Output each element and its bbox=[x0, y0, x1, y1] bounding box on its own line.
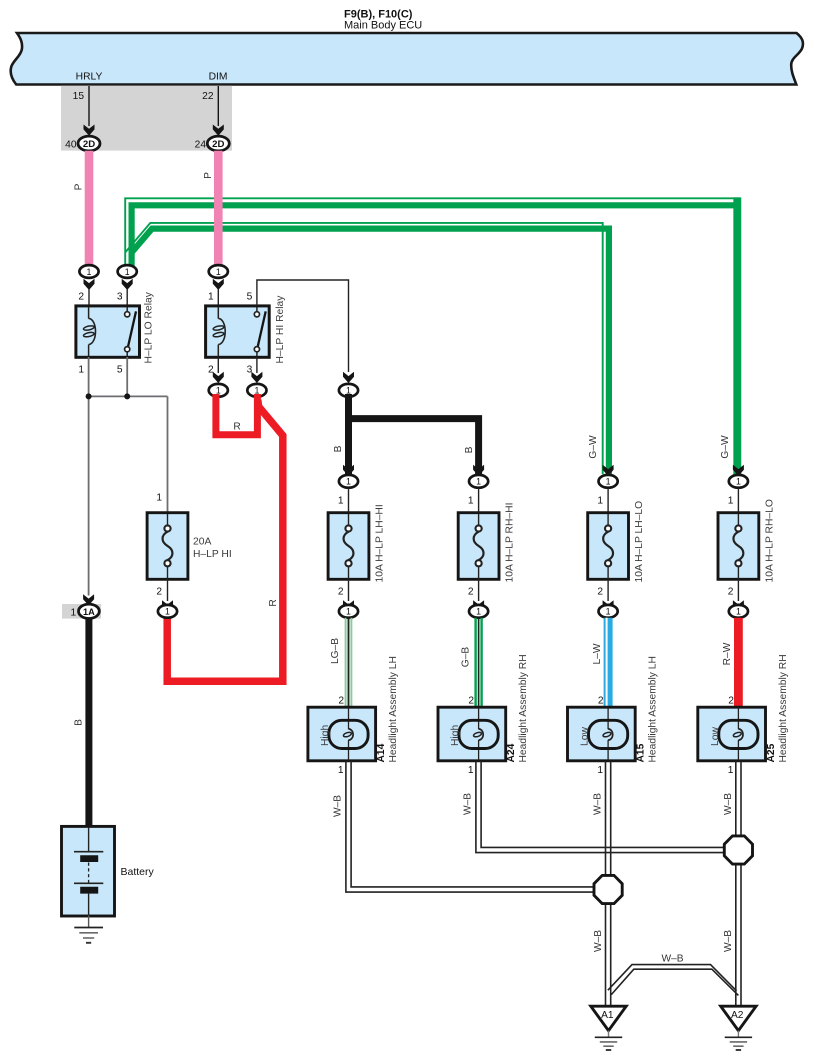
svg-text:1: 1 bbox=[208, 292, 214, 303]
HI relay pin 2 stub bbox=[217, 357, 219, 373]
battery bbox=[62, 826, 115, 916]
ground A2 bbox=[721, 1006, 756, 1030]
wire W-B link between A1 and A2 legs bbox=[608, 965, 737, 991]
connector 1 above fuse 10A H&#8211;LP LH&#8211;LO bbox=[603, 465, 614, 476]
svg-text:Headlight Assembly LH: Headlight Assembly LH bbox=[388, 656, 399, 762]
connector 2D pin 40 bbox=[84, 125, 95, 136]
wire to 1A connector bbox=[88, 396, 90, 595]
svg-text:R: R bbox=[268, 599, 279, 606]
fuse 10A H&#8211;LP RH&#8211;HI box bbox=[458, 513, 499, 580]
battery ground bbox=[88, 916, 90, 928]
junction octagon left bbox=[594, 875, 622, 903]
svg-text:1A: 1A bbox=[83, 607, 95, 617]
svg-text:W–B: W–B bbox=[333, 795, 344, 817]
svg-text:2: 2 bbox=[78, 292, 84, 303]
svg-text:2: 2 bbox=[468, 696, 474, 707]
svg-text:A24: A24 bbox=[506, 743, 517, 762]
wire G-W upper run to RH-LO fuse bbox=[132, 205, 738, 474]
connector 1 above LO relay pin 2 bbox=[79, 265, 98, 278]
wire W-B from A14 to junction bbox=[346, 761, 597, 892]
svg-text:1: 1 bbox=[597, 496, 603, 507]
svg-text:A1: A1 bbox=[601, 1010, 614, 1021]
relay contact bbox=[126, 307, 128, 312]
svg-text:DIM: DIM bbox=[209, 72, 228, 83]
svg-text:B: B bbox=[333, 445, 344, 452]
fuse 10A H&#8211;LP LH&#8211;HI box bbox=[328, 513, 369, 580]
svg-text:10A H–LP RH–HI: 10A H–LP RH–HI bbox=[505, 503, 516, 583]
svg-text:10A H–LP RH–LO: 10A H–LP RH–LO bbox=[764, 499, 775, 582]
svg-text:LG–B: LG–B bbox=[330, 638, 341, 664]
wire HRLY pin15 bbox=[88, 86, 90, 126]
svg-text:P: P bbox=[74, 183, 85, 190]
svg-text:2: 2 bbox=[597, 587, 603, 598]
svg-text:2: 2 bbox=[338, 587, 344, 598]
svg-text:2: 2 bbox=[156, 587, 162, 598]
wire LG-B to A14 bbox=[345, 618, 347, 708]
svg-text:1: 1 bbox=[78, 365, 84, 376]
wire W-B from A25 to ground A2 bbox=[735, 761, 737, 1007]
svg-text:Headlight Assembly RH: Headlight Assembly RH bbox=[778, 654, 789, 762]
svg-text:Main Body ECU: Main Body ECU bbox=[344, 20, 422, 32]
relay box H&#8211;LP LO Relay bbox=[76, 306, 140, 357]
svg-text:A2: A2 bbox=[731, 1010, 744, 1021]
node Main Body ECU band bbox=[11, 33, 803, 85]
connector 1 above fuse 10A H&#8211;LP LH&#8211;HI bbox=[343, 465, 354, 476]
svg-text:B: B bbox=[74, 719, 85, 726]
svg-text:1: 1 bbox=[338, 765, 344, 776]
svg-text:5: 5 bbox=[117, 365, 123, 376]
wire P from pin 24 to HI relay bbox=[214, 151, 223, 265]
svg-text:Low: Low bbox=[710, 727, 721, 746]
svg-text:P: P bbox=[203, 172, 214, 179]
connector 2D block bbox=[61, 86, 232, 151]
svg-text:G–W: G–W bbox=[588, 435, 599, 459]
svg-text:2: 2 bbox=[728, 696, 734, 707]
HI relay pin 3 stub bbox=[256, 357, 258, 373]
wire R U-link relay pins 2-3 bbox=[216, 394, 258, 435]
connector 1 on B wire bbox=[343, 372, 354, 383]
svg-text:G–W: G–W bbox=[720, 435, 731, 459]
connector 1 above fuse 10A H&#8211;LP RH&#8211;LO bbox=[733, 465, 744, 476]
relay contact bbox=[256, 307, 258, 312]
svg-text:W–B: W–B bbox=[593, 930, 604, 952]
svg-text:3: 3 bbox=[117, 292, 123, 303]
svg-text:H–LP HI Relay: H–LP HI Relay bbox=[275, 295, 286, 364]
svg-text:1: 1 bbox=[597, 765, 603, 776]
wire B to battery bbox=[85, 618, 92, 827]
svg-text:High: High bbox=[450, 725, 461, 746]
connector 1 above HI relay pin 1 bbox=[209, 265, 228, 278]
svg-text:10A H–LP LH–LO: 10A H–LP LH–LO bbox=[634, 501, 645, 583]
wire L-W to A15 bbox=[604, 618, 613, 708]
headlight bulb A24 High bbox=[438, 707, 506, 761]
svg-text:1: 1 bbox=[468, 765, 474, 776]
connector 1 above LO relay pin 3 bbox=[118, 265, 137, 278]
svg-text:1: 1 bbox=[338, 496, 344, 507]
svg-text:2: 2 bbox=[468, 587, 474, 598]
svg-text:W–B: W–B bbox=[593, 793, 604, 815]
svg-text:H–LP HI: H–LP HI bbox=[193, 549, 232, 560]
svg-text:R–W: R–W bbox=[722, 642, 733, 665]
wire HI relay pin 5 to connector bbox=[257, 280, 349, 372]
svg-text:High: High bbox=[320, 725, 331, 746]
svg-text:H–LP LO Relay: H–LP LO Relay bbox=[144, 291, 155, 363]
svg-text:2D: 2D bbox=[83, 139, 95, 150]
svg-text:10A H–LP LH–HI: 10A H–LP LH–HI bbox=[375, 504, 386, 582]
svg-text:1: 1 bbox=[728, 496, 734, 507]
wire W-B from A24 to junction bbox=[476, 761, 728, 853]
fuse 10A H&#8211;LP RH&#8211;LO box bbox=[718, 513, 759, 580]
svg-text:2: 2 bbox=[728, 587, 734, 598]
wire W-B from A15 to ground A1 bbox=[605, 761, 607, 1007]
svg-text:1: 1 bbox=[468, 496, 474, 507]
svg-text:1: 1 bbox=[156, 493, 162, 504]
svg-text:24: 24 bbox=[195, 140, 207, 151]
svg-text:B: B bbox=[464, 446, 475, 453]
svg-text:A15: A15 bbox=[636, 743, 647, 762]
svg-text:22: 22 bbox=[202, 91, 214, 102]
svg-text:2D: 2D bbox=[212, 139, 224, 150]
wire G-B to A24 bbox=[474, 618, 476, 708]
ground A1 bbox=[591, 1006, 626, 1030]
wire to 20A fuse bbox=[167, 396, 169, 514]
svg-text:W–B: W–B bbox=[723, 793, 734, 815]
svg-text:5: 5 bbox=[247, 292, 253, 303]
svg-text:L–W: L–W bbox=[592, 643, 603, 664]
svg-text:A14: A14 bbox=[376, 743, 387, 762]
fuse 20A box bbox=[147, 513, 188, 580]
wire DIM pin22 bbox=[217, 86, 219, 126]
junction node dots bbox=[86, 393, 92, 399]
connector 1A bbox=[62, 604, 101, 619]
svg-text:Low: Low bbox=[580, 727, 591, 746]
relay coil bbox=[88, 307, 90, 319]
relay coil bbox=[217, 307, 219, 319]
headlight bulb A25 Low bbox=[698, 707, 766, 761]
svg-text:Headlight Assembly RH: Headlight Assembly RH bbox=[518, 654, 529, 762]
svg-text:1: 1 bbox=[71, 607, 77, 618]
connector 1 above fuse 10A H&#8211;LP RH&#8211;HI bbox=[473, 465, 484, 476]
wire B from relay connector to HI fuses bbox=[345, 394, 352, 474]
svg-text:G–B: G–B bbox=[461, 647, 472, 668]
svg-text:2: 2 bbox=[338, 696, 344, 707]
headlight bulb A15 Low bbox=[568, 707, 636, 761]
svg-text:15: 15 bbox=[73, 91, 85, 102]
svg-text:20A: 20A bbox=[193, 537, 211, 548]
svg-text:Battery: Battery bbox=[121, 866, 155, 878]
junction octagon right bbox=[724, 836, 752, 864]
relay box H&#8211;LP HI Relay bbox=[206, 306, 270, 357]
svg-text:1: 1 bbox=[728, 765, 734, 776]
wire R long run to 20A fuse bbox=[167, 400, 283, 681]
wire P from pin 40 to LO relay bbox=[85, 151, 94, 265]
svg-text:W–B: W–B bbox=[661, 954, 683, 965]
svg-text:A25: A25 bbox=[766, 743, 777, 762]
svg-text:R: R bbox=[233, 422, 240, 433]
junction rail from LO relay pins 1 and 5 bbox=[88, 357, 90, 396]
headlight bulb A14 High bbox=[308, 707, 376, 761]
svg-text:HRLY: HRLY bbox=[76, 72, 103, 83]
svg-text:2: 2 bbox=[598, 696, 604, 707]
fuse 10A H&#8211;LP LH&#8211;LO box bbox=[588, 513, 629, 580]
svg-text:W–B: W–B bbox=[723, 930, 734, 952]
connector 2D pin 24 bbox=[213, 125, 224, 136]
svg-text:W–B: W–B bbox=[463, 793, 474, 815]
svg-text:Headlight Assembly LH: Headlight Assembly LH bbox=[648, 656, 659, 762]
wire G-W lower run to LH-LO fuse bbox=[132, 229, 609, 474]
wire R-W to A25 bbox=[734, 618, 743, 708]
svg-text:40: 40 bbox=[65, 140, 77, 151]
